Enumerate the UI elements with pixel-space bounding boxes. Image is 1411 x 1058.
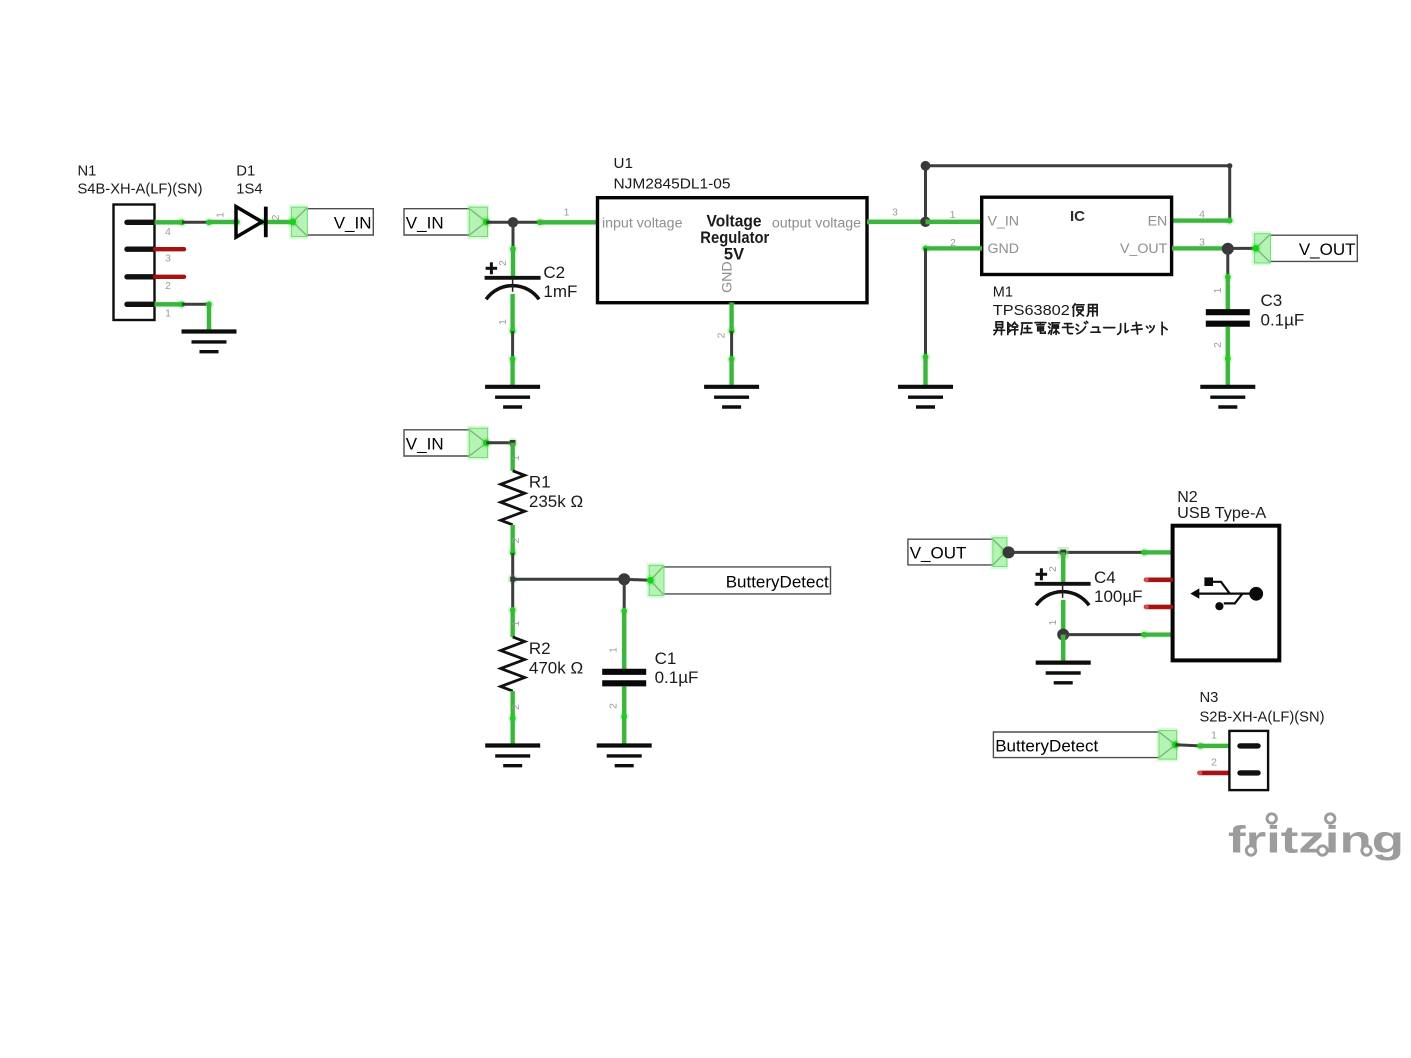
svg-text:1: 1 xyxy=(511,620,522,626)
svg-text:ButteryDetect: ButteryDetect xyxy=(995,736,1098,755)
wire M1 GND to ground xyxy=(924,248,927,357)
svg-text:1: 1 xyxy=(950,210,956,221)
wire N1 pin4 to D1 xyxy=(182,221,209,224)
svg-text:0.1µF: 0.1µF xyxy=(655,668,699,687)
net label V_IN B xyxy=(404,205,489,239)
svg-text:2: 2 xyxy=(511,537,522,543)
svg-text:S4B-XH-A(LF)(SN): S4B-XH-A(LF)(SN) xyxy=(78,182,203,198)
junction ButteryDetect xyxy=(618,573,630,585)
C4 pin 1 lead xyxy=(1060,600,1067,635)
ground C1 xyxy=(597,746,652,766)
diode D1 1S4 xyxy=(236,163,262,197)
M1 EN pin lead xyxy=(1172,217,1230,224)
net label ButteryDetect A xyxy=(647,563,831,598)
svg-text:C4: C4 xyxy=(1094,568,1116,587)
connector N3 S2B-XH-A(LF)(SN) xyxy=(1200,690,1325,790)
ground U1 xyxy=(704,387,759,407)
junction at V_OUT label xyxy=(1003,546,1015,558)
ground lead under N1 xyxy=(206,304,213,331)
svg-text:2: 2 xyxy=(271,214,282,220)
svg-text:2: 2 xyxy=(165,281,171,292)
U1 GND pin lead xyxy=(728,302,735,331)
svg-text:Voltage: Voltage xyxy=(707,213,762,231)
wire junction to V_OUT label xyxy=(1228,247,1256,250)
svg-text:IC: IC xyxy=(1070,208,1085,225)
wire V_IN label to R1 xyxy=(486,441,512,444)
fritzing logo xyxy=(1228,807,1404,862)
wire U1 GND to ground xyxy=(730,331,733,359)
wire junction up to EN loop xyxy=(924,166,927,222)
wire C2 to ground xyxy=(511,331,514,359)
svg-text:D1: D1 xyxy=(236,163,255,179)
svg-text:C1: C1 xyxy=(655,649,677,668)
svg-text:1: 1 xyxy=(609,647,620,653)
voltage regulator U1 NJM2845DL1-05 xyxy=(598,155,868,303)
ground lead under C2 xyxy=(509,359,516,387)
svg-text:235k Ω: 235k Ω xyxy=(529,492,583,511)
wire EN loop top xyxy=(926,164,1230,167)
wire N1 pin1 to ground xyxy=(182,303,210,306)
node V_IN A connection point xyxy=(287,216,298,227)
svg-text:GND: GND xyxy=(988,241,1020,257)
D1 cathode bar xyxy=(264,207,268,238)
N1 pin 4 lead xyxy=(155,219,183,226)
wire EN loop down xyxy=(1228,166,1231,221)
net label V_IN A xyxy=(289,205,373,239)
svg-text:1S4: 1S4 xyxy=(236,182,262,198)
wire C4 to USB pin4 xyxy=(1063,633,1144,636)
svg-text:100µF: 100µF xyxy=(1094,587,1143,606)
svg-text:C3: C3 xyxy=(1261,291,1283,310)
svg-text:3: 3 xyxy=(165,254,171,265)
svg-text:S2B-XH-A(LF)(SN): S2B-XH-A(LF)(SN) xyxy=(1200,710,1325,726)
junction top left of EN loop xyxy=(921,161,931,171)
svg-text:1: 1 xyxy=(511,455,522,461)
ground C4 xyxy=(1036,663,1091,683)
svg-text:2: 2 xyxy=(1211,758,1217,769)
svg-text:N3: N3 xyxy=(1200,690,1219,706)
ground lead under U1 xyxy=(728,359,735,387)
C4 pin 2 lead xyxy=(1060,552,1067,583)
D1 cathode lead xyxy=(261,219,293,226)
R1 pin 1 lead xyxy=(509,443,516,471)
wire junction down to C1 xyxy=(623,579,626,611)
ground M1 xyxy=(898,387,953,407)
C1 pin 1 lead xyxy=(621,611,628,669)
M1 GND pin lead xyxy=(926,245,983,252)
C3 pin 2 lead xyxy=(1225,327,1232,387)
svg-text:U1: U1 xyxy=(614,155,633,172)
svg-text:1: 1 xyxy=(1048,619,1059,625)
C2 pin 2 lead xyxy=(510,249,517,278)
svg-text:V_IN: V_IN xyxy=(406,214,444,233)
capacitor C2 1mF xyxy=(485,262,578,301)
svg-text:Regulator: Regulator xyxy=(700,229,770,247)
capacitor C1 0.1uF xyxy=(602,649,698,687)
capacitor C4 100uF xyxy=(1035,568,1143,606)
wire V_OUT to USB pin1 xyxy=(1009,551,1145,554)
R2 pin 2 lead xyxy=(509,691,516,746)
svg-text:ButteryDetect: ButteryDetect xyxy=(726,573,829,592)
R2 pin 1 lead xyxy=(509,610,516,637)
node ButteryDetect B connection point xyxy=(1170,739,1181,750)
svg-text:0.1µF: 0.1µF xyxy=(1261,311,1305,330)
svg-text:V_IN: V_IN xyxy=(988,214,1020,230)
resistor R1 235k xyxy=(501,471,583,525)
N1 pin 2 red stub xyxy=(155,275,184,279)
junction M1 V_OUT xyxy=(1222,243,1234,255)
N1 pin 3 red stub xyxy=(155,247,184,251)
D1 triangle xyxy=(236,207,262,238)
junction at U1 input xyxy=(508,217,518,227)
C2 pin 1 lead xyxy=(509,294,516,331)
node V_IN B connection point xyxy=(481,216,492,227)
svg-text:1: 1 xyxy=(564,207,570,218)
svg-text:1: 1 xyxy=(498,319,509,325)
svg-text:4: 4 xyxy=(165,227,171,238)
capacitor C3 0.1uF xyxy=(1206,291,1305,330)
resistor R2 470k xyxy=(501,637,583,691)
svg-text:GND: GND xyxy=(720,261,736,293)
svg-text:V_OUT: V_OUT xyxy=(910,544,967,563)
svg-text:NJM2845DL1-05: NJM2845DL1-05 xyxy=(614,175,731,192)
M1 pin 1 lead xyxy=(926,219,983,226)
M1 value TPS63802 (Japanese) xyxy=(993,303,1070,319)
node V_IN C connection point xyxy=(481,437,492,448)
svg-text:2: 2 xyxy=(498,260,509,266)
junction C4 / USB gnd xyxy=(1057,629,1069,641)
ground C3 xyxy=(1200,387,1255,407)
node V_OUT A connection point xyxy=(1250,243,1261,254)
USB pin 4 lead xyxy=(1144,631,1172,638)
N2 pin 3 red stub xyxy=(1144,605,1171,610)
node V_OUT B connection point xyxy=(1000,546,1011,557)
ground C2 xyxy=(485,387,540,407)
wire ButteryDetect to N3 xyxy=(1175,745,1200,746)
svg-text:input voltage: input voltage xyxy=(602,216,683,232)
wire junction down to C3 xyxy=(1226,249,1229,277)
N3 pin 1 lead xyxy=(1200,743,1229,750)
wire divider node down to R2 xyxy=(511,579,514,610)
net label ButteryDetect B xyxy=(993,728,1178,762)
svg-text:R1: R1 xyxy=(529,473,551,492)
U1 pin 1 lead xyxy=(540,219,597,226)
svg-text:C2: C2 xyxy=(543,263,565,282)
USB pin 1 lead xyxy=(1144,549,1172,556)
svg-text:EN: EN xyxy=(1148,214,1168,230)
svg-text:1: 1 xyxy=(1213,287,1224,293)
ground lead under C4 xyxy=(1060,635,1067,663)
svg-text:output voltage: output voltage xyxy=(772,216,861,232)
net label V_IN C xyxy=(404,426,489,460)
svg-text:1: 1 xyxy=(216,212,227,218)
wire R1 to divider node xyxy=(511,553,514,579)
svg-text:4: 4 xyxy=(1199,209,1205,220)
svg-text:N1: N1 xyxy=(78,163,97,179)
net label V_OUT A xyxy=(1252,231,1357,265)
svg-text:3: 3 xyxy=(892,207,898,218)
junction top right of EN loop xyxy=(1227,163,1232,168)
wire divider node to junction xyxy=(513,578,625,581)
svg-text:2: 2 xyxy=(950,238,956,249)
junction U1 output / M1 V_IN xyxy=(920,217,930,227)
N2 pin 2 red stub xyxy=(1144,577,1171,582)
svg-text:1: 1 xyxy=(165,309,171,320)
C1 pin 2 lead xyxy=(621,687,628,746)
N1 pin 1 lead xyxy=(155,301,183,308)
M1 V_OUT pin lead xyxy=(1172,245,1228,252)
ground N1 xyxy=(182,332,237,352)
svg-text:V_IN: V_IN xyxy=(334,214,372,233)
svg-text:3: 3 xyxy=(1199,238,1205,249)
svg-text:2: 2 xyxy=(1213,342,1224,348)
wire junction to U1 pin1 xyxy=(513,221,540,224)
net label V_OUT B xyxy=(908,535,1008,569)
R1 pin 2 lead xyxy=(509,525,516,553)
svg-text:2: 2 xyxy=(717,332,728,338)
M1 value kanji (shiyou) xyxy=(1073,304,1084,317)
wire junction to ButteryDetect label xyxy=(624,579,650,580)
svg-text:470k Ω: 470k Ω xyxy=(529,658,583,677)
module M1 TPS63802 xyxy=(982,197,1172,300)
svg-text:TPS63802: TPS63802 xyxy=(993,303,1070,319)
svg-text:N2: N2 xyxy=(1177,489,1198,506)
svg-text:1: 1 xyxy=(1211,731,1217,742)
U1 pin 3 lead xyxy=(867,219,926,226)
M1 description kanji line xyxy=(994,322,1005,335)
svg-text:2: 2 xyxy=(511,704,522,710)
svg-text:1mF: 1mF xyxy=(543,282,577,301)
node ButteryDetect A connection point xyxy=(645,575,656,586)
svg-text:2: 2 xyxy=(1048,566,1059,572)
ground R2 xyxy=(485,746,540,766)
ground lead under M1 xyxy=(922,357,929,387)
N3 pin 2 red stub xyxy=(1198,771,1230,776)
svg-text:V_IN: V_IN xyxy=(406,435,444,454)
connector N1 S4B-XH-A(LF)(SN) xyxy=(78,163,203,320)
svg-text:USB Type-A: USB Type-A xyxy=(1177,505,1266,522)
svg-text:V_OUT: V_OUT xyxy=(1120,241,1168,257)
svg-text:R2: R2 xyxy=(529,639,551,658)
wire junction down to C2 xyxy=(512,222,515,249)
svg-text:2: 2 xyxy=(609,703,620,709)
svg-text:5V: 5V xyxy=(724,245,744,263)
connector N2 USB Type-A xyxy=(1173,489,1280,660)
USB trident icon xyxy=(1190,577,1263,610)
wire V_IN label to junction xyxy=(486,221,513,224)
C3 pin 1 lead xyxy=(1225,277,1232,310)
svg-text:V_OUT: V_OUT xyxy=(1299,240,1356,259)
D1 anode lead xyxy=(209,219,237,226)
svg-text:M1: M1 xyxy=(993,285,1013,301)
